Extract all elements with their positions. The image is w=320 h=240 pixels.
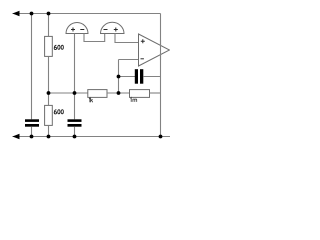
node top rail a — [30, 12, 34, 16]
receiver E1 — [66, 23, 88, 34]
capacitor C2 — [68, 119, 82, 136]
label 1k R3 — [89, 98, 93, 103]
wire R1 to R2 — [48, 56, 50, 105]
wire op-amp minus input — [119, 59, 139, 61]
wire R4 to right rail — [150, 92, 161, 94]
label 1m R4 — [130, 98, 136, 102]
wire R3 to node — [107, 92, 130, 94]
wire R2 to bottom rail — [48, 125, 50, 136]
wire right rail through op-amp — [160, 40, 162, 60]
resistor R3 — [88, 90, 107, 98]
wire second branch upper — [48, 14, 50, 37]
wire E2 right lead to op-amp plus input — [115, 34, 139, 43]
wire top rail — [13, 13, 161, 15]
capacitor C3 feedback — [119, 69, 161, 84]
arrow top-left — [12, 11, 19, 17]
wire bottom rail — [13, 136, 171, 138]
label 600 R2 — [54, 110, 63, 114]
node bottom rail d — [159, 135, 163, 139]
node mid rail b — [73, 91, 77, 95]
wire left branch vertical — [31, 14, 33, 120]
wire E1 right lead to E2 left lead — [84, 34, 105, 42]
label 600 R1 — [54, 45, 63, 49]
resistor R4 — [130, 90, 150, 98]
node bottom rail a — [30, 135, 34, 139]
node top rail b — [47, 12, 51, 16]
wire right rail — [160, 14, 162, 137]
wire mid rail left — [49, 92, 89, 94]
wire feedback node vertical — [118, 60, 120, 94]
resistor R2 — [45, 105, 53, 125]
node bottom rail b — [47, 135, 51, 139]
receiver E2 — [101, 22, 125, 33]
wire E1 left lead down — [74, 34, 76, 120]
node feedback cap — [117, 75, 121, 79]
op-amp U1 — [139, 34, 170, 66]
resistor R1 — [45, 36, 53, 56]
capacitor C1 — [25, 119, 39, 136]
node feedback res — [117, 91, 121, 95]
node bottom rail c — [73, 135, 77, 139]
node mid rail a — [47, 91, 51, 95]
arrow bottom-left — [12, 134, 19, 140]
